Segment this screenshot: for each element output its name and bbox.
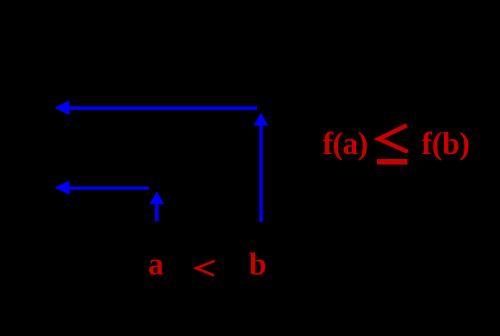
label: big less-than-or-equal — [377, 125, 408, 162]
svg-text:f(b): f(b) — [422, 126, 470, 161]
svg-text:f(a): f(a) — [323, 126, 368, 161]
wire: lower vertical arrow from a up to curve — [150, 191, 165, 221]
wire: upper horizontal arrow f(b) to y-axis — [55, 100, 258, 115]
wire: lower horizontal arrow f(a) to y-axis — [55, 180, 149, 195]
label: less-than between a and b — [196, 261, 214, 276]
svg-text:a: a — [148, 247, 164, 282]
wire: upper vertical arrow from b up to curve — [254, 113, 269, 223]
svg-text:b: b — [249, 247, 267, 282]
